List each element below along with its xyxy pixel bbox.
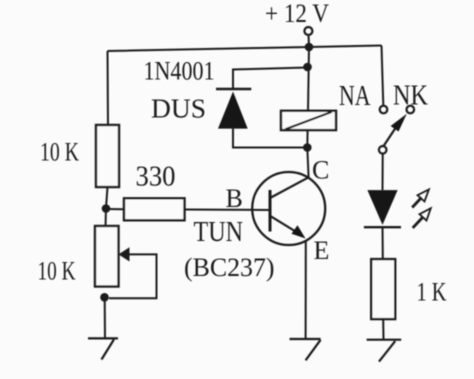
wire node to R2 bbox=[106, 208, 124, 210]
svg-text:10 K: 10 K bbox=[38, 257, 76, 286]
resistor R 10K upper bbox=[96, 125, 119, 187]
transistor Q1 base bar bbox=[269, 190, 272, 232]
LED D2 cathode bar bbox=[364, 226, 401, 228]
svg-text:NK: NK bbox=[393, 80, 428, 112]
terminal +12V bbox=[304, 27, 312, 35]
node diode top junction bbox=[303, 63, 312, 72]
potentiometer wiper arrow bbox=[119, 247, 130, 261]
relay coil K1 bbox=[281, 111, 336, 130]
wire wiper to bottom node bbox=[109, 254, 157, 298]
wire LED to R3 bbox=[382, 227, 384, 259]
contact NK bbox=[407, 106, 415, 114]
ground right bbox=[367, 340, 402, 362]
LED light arrow lower bbox=[413, 208, 431, 228]
wire R1 bottom to node bbox=[106, 187, 108, 208]
LED D2 body bbox=[367, 190, 397, 225]
svg-text:NA: NA bbox=[339, 80, 371, 112]
wire rail down to R1 bbox=[107, 51, 110, 125]
svg-text:E: E bbox=[314, 236, 330, 265]
wire relay to collector node bbox=[306, 130, 308, 147]
svg-text:(BC237): (BC237) bbox=[184, 253, 275, 282]
wire node to potentiometer bbox=[105, 209, 108, 227]
relay diagonal bbox=[285, 112, 331, 129]
node junction on rail bbox=[305, 43, 314, 52]
transistor Q1 emitter stroke bbox=[270, 216, 298, 233]
wire pot to ground bbox=[104, 297, 106, 338]
contact pole bbox=[379, 146, 387, 154]
switch lever bbox=[384, 128, 396, 146]
wire node to collector bbox=[307, 148, 308, 178]
wire diode branch bottom bbox=[233, 129, 307, 148]
switch lever arrow bbox=[391, 114, 407, 132]
wire emitter to ground bbox=[305, 241, 307, 339]
wire diode branch top bbox=[233, 68, 308, 90]
svg-text:330: 330 bbox=[136, 162, 176, 193]
node diode bottom junction bbox=[303, 143, 312, 152]
node divider junction bbox=[102, 204, 111, 213]
ground left bbox=[88, 338, 118, 359]
svg-text:1N4001: 1N4001 bbox=[144, 57, 215, 86]
diode D1 cathode bar bbox=[216, 88, 251, 90]
svg-text:DUS: DUS bbox=[151, 94, 206, 124]
wire rail down to NA contact bbox=[382, 46, 384, 106]
svg-text:10 K: 10 K bbox=[40, 138, 79, 167]
transistor Q1 emitter arrow bbox=[292, 225, 306, 238]
resistor R3 1K bbox=[371, 259, 395, 319]
transistor Q1 circle bbox=[252, 172, 325, 245]
wire R3 to ground bbox=[382, 319, 384, 340]
wire base bbox=[185, 209, 271, 212]
wire top rail bbox=[108, 46, 382, 52]
diode D1 body bbox=[218, 92, 248, 129]
LED light arrow upper bbox=[412, 189, 429, 207]
svg-text:B: B bbox=[226, 184, 243, 213]
wire rail to relay bbox=[308, 47, 309, 111]
potentiometer 10K body bbox=[95, 226, 119, 287]
svg-text:C: C bbox=[312, 156, 329, 185]
resistor 330 bbox=[124, 198, 185, 220]
wire terminal to rail bbox=[308, 35, 311, 46]
svg-text:1 K: 1 K bbox=[417, 278, 447, 307]
svg-text:+ 12 V: + 12 V bbox=[265, 0, 329, 28]
node pot bottom bbox=[100, 293, 109, 302]
svg-text:TUN: TUN bbox=[194, 217, 244, 248]
transistor Q1 collector stroke bbox=[270, 177, 309, 198]
contact NA bbox=[380, 106, 388, 114]
wire pole to LED bbox=[382, 154, 384, 190]
ground middle bbox=[290, 339, 321, 360]
